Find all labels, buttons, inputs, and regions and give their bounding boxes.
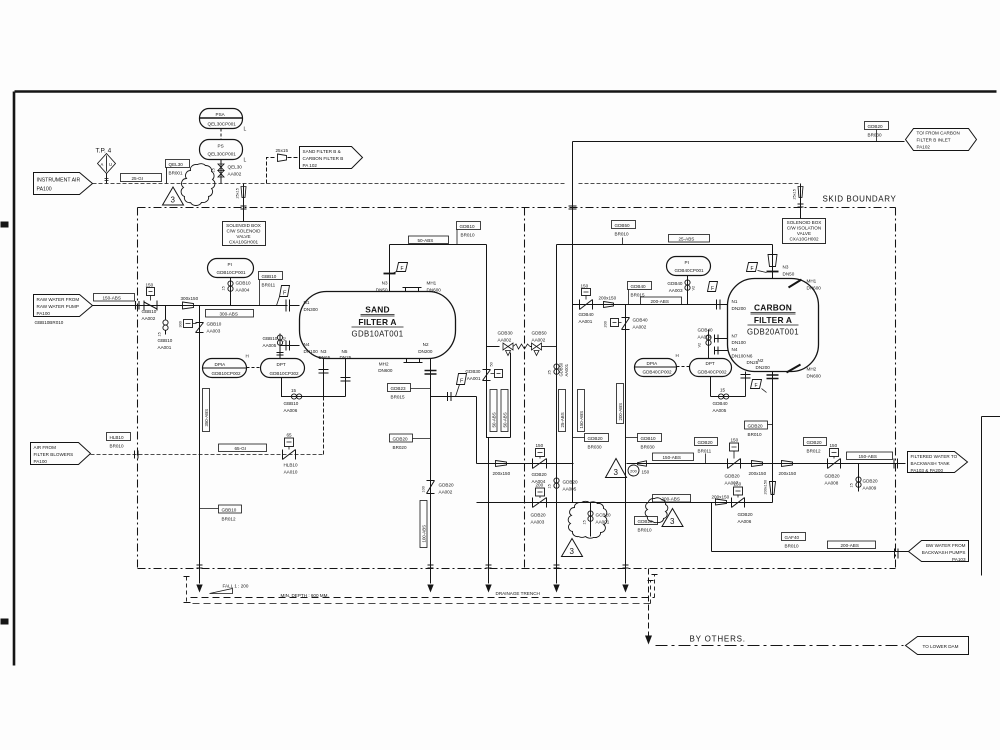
svg-text:200x150: 200x150 (712, 495, 730, 500)
manway MH2 DN600 (378, 359, 422, 374)
svg-text:GDB40: GDB40 (631, 284, 647, 289)
svg-text:PI: PI (685, 260, 689, 265)
revision triangle 3 (163, 187, 184, 205)
labels 50-ABS vertical pair (490, 390, 508, 432)
svg-text:BR012: BR012 (222, 517, 236, 522)
svg-text:H: H (246, 354, 249, 359)
svg-text:N3: N3 (783, 265, 789, 270)
svg-text:N3: N3 (382, 281, 388, 286)
valve GDB20 AA005 (548, 478, 579, 492)
svg-text:DN50: DN50 (783, 272, 795, 277)
svg-text:V2: V2 (283, 337, 287, 342)
instrument DPIA GDB10CP002 (203, 354, 249, 378)
svg-text:GBB10BR010: GBB10BR010 (35, 320, 64, 325)
svg-text:GBB10: GBB10 (263, 336, 278, 341)
backwash header 200-ABS (477, 502, 773, 504)
svg-text:N2: N2 (758, 358, 764, 363)
svg-text:GDB40: GDB40 (713, 401, 729, 406)
svg-text:200x150: 200x150 (749, 471, 767, 476)
svg-text:GDB40: GDB40 (667, 281, 683, 286)
svg-text:DN200: DN200 (756, 365, 771, 370)
instrument air dashed header (93, 183, 800, 185)
svg-text:GDB10: GDB10 (236, 281, 252, 286)
joint ticks at skid crossing (569, 206, 577, 209)
wire GDB30 drain riser (488, 438, 490, 569)
svg-text:GDB10CP302: GDB10CP302 (270, 371, 300, 376)
svg-text:15: 15 (222, 286, 226, 290)
svg-text:AA003: AA003 (531, 520, 545, 525)
svg-text:DN25: DN25 (340, 355, 352, 360)
svg-text:QEL30: QEL30 (169, 162, 184, 167)
svg-text:BACKWASH TANK: BACKWASH TANK (911, 461, 951, 466)
svg-text:GDB40CP002: GDB40CP002 (698, 370, 728, 375)
svg-text:GDB40CP002: GDB40CP002 (643, 370, 673, 375)
svg-text:AA010: AA010 (284, 470, 298, 475)
svg-text:GDB20: GDB20 (393, 437, 409, 442)
svg-text:GDB20: GDB20 (588, 436, 604, 441)
svg-text:SOLENOID BOX: SOLENOID BOX (226, 223, 261, 228)
label 25-GI (121, 174, 162, 182)
svg-text:RAW WATER FROM: RAW WATER FROM (37, 297, 80, 302)
label GDB50 BR010 (612, 221, 636, 245)
svg-text:GDB30: GDB30 (465, 369, 481, 374)
svg-text:GDB20: GDB20 (698, 440, 714, 445)
svg-text:U: U (109, 162, 112, 167)
svg-text:DN50: DN50 (376, 288, 388, 293)
wire N2 cross header (431, 396, 477, 398)
svg-text:GBB10: GBB10 (284, 401, 299, 406)
right border partial rect (982, 417, 1000, 576)
svg-text:DN100: DN100 (304, 349, 319, 354)
svg-text:AA009: AA009 (863, 486, 877, 491)
svg-text:150: 150 (734, 482, 742, 487)
valve GDB20 AA009 drain (850, 464, 879, 492)
svg-text:N6: N6 (747, 354, 753, 359)
label 100-ABS vertical (420, 501, 427, 548)
svg-text:GDB40: GDB40 (579, 312, 595, 317)
svg-text:FILTER A: FILTER A (358, 317, 396, 327)
wire air scour dashed (91, 454, 325, 456)
svg-text:GDB20: GDB20 (638, 519, 654, 524)
svg-text:GDB20: GDB20 (748, 424, 764, 429)
svg-text:25-GI: 25-GI (132, 176, 144, 181)
svg-text:AA002: AA002 (142, 316, 156, 321)
F flag raw line (277, 286, 290, 306)
svg-text:GDB20: GDB20 (439, 483, 455, 488)
svg-text:150: 150 (146, 283, 154, 288)
svg-text:AA003: AA003 (669, 288, 683, 293)
nozzle N7 DN100 / N4 DN100 + valve GDB40 AA004 (698, 328, 747, 359)
svg-text:150: 150 (830, 443, 838, 448)
svg-text:AA005: AA005 (563, 487, 577, 492)
svg-text:DPIA: DPIA (647, 361, 659, 366)
svg-text:AA002: AA002 (439, 490, 453, 495)
wire DPIA-DPT dashed carbon (677, 366, 690, 368)
svg-text:BR011: BR011 (262, 283, 276, 288)
valve GDB20 AA004 w/ actuator (532, 443, 548, 484)
svg-text:PS: PS (218, 144, 224, 149)
svg-text:GBB10: GBB10 (158, 338, 173, 343)
svg-text:PA100: PA100 (37, 187, 52, 193)
svg-text:AIR FROM: AIR FROM (34, 445, 57, 450)
label GBB10 BR011 (259, 272, 283, 306)
F flag carbon N2 (751, 380, 767, 393)
svg-text:15: 15 (850, 483, 854, 487)
svg-text:GDB20: GDB20 (825, 474, 841, 479)
svg-text:GDB50: GDB50 (615, 223, 631, 228)
reducer 200x150 pair (749, 461, 797, 477)
svg-text:300-ABS: 300-ABS (220, 312, 238, 317)
BY OTHERS dashed route (645, 569, 904, 646)
manway MH1 DN600 (403, 281, 442, 293)
svg-text:GDB10AT001: GDB10AT001 (352, 330, 404, 339)
svg-text:AA002: AA002 (228, 172, 242, 177)
flag AIR FROM FILTER BLOWERS PA100 (31, 443, 91, 465)
svg-text:3: 3 (171, 196, 176, 205)
svg-text:N7: N7 (732, 334, 738, 339)
svg-text:150: 150 (642, 470, 650, 475)
flag TO LOWER DAM (906, 637, 969, 655)
svg-text:L: L (244, 127, 247, 133)
svg-text:200x150: 200x150 (764, 480, 768, 495)
svg-text:BW WATER FROM: BW WATER FROM (926, 543, 966, 548)
spec break circle 200x150 (628, 461, 650, 476)
svg-text:GDB20: GDB20 (563, 480, 579, 485)
vessel CARBON FILTER A GDB20AT001 (728, 279, 819, 372)
label 200-ABS vertical (617, 384, 624, 424)
svg-text:VALVE: VALVE (797, 231, 811, 236)
valve GDB40 AA001 (579, 284, 595, 325)
reducer 25x15 drop to solenoid box 1 (236, 184, 247, 222)
revision triangle 3 bottom (562, 539, 583, 557)
svg-text:200x150: 200x150 (599, 296, 617, 301)
svg-text:3: 3 (570, 547, 575, 556)
svg-text:GDB20: GDB20 (725, 474, 741, 479)
svg-text:DN600: DN600 (427, 288, 442, 293)
node N1 flange ticks (286, 300, 290, 312)
svg-text:BR010: BR010 (748, 432, 762, 437)
svg-text:GDB20: GDB20 (807, 440, 823, 445)
svg-text:SAND FILTER B &: SAND FILTER B & (303, 149, 341, 154)
svg-text:15: 15 (583, 520, 587, 524)
svg-text:3: 3 (614, 468, 619, 477)
svg-text:BR010: BR010 (785, 544, 799, 549)
svg-text:200x150: 200x150 (779, 471, 797, 476)
svg-text:C/W SOLENOID: C/W SOLENOID (227, 229, 262, 234)
svg-text:N4: N4 (304, 342, 310, 347)
wire DPIA-DPT dashed (247, 367, 261, 369)
svg-text:200-ABS: 200-ABS (841, 543, 859, 548)
label 65-GI (219, 444, 267, 452)
svg-text:MH2: MH2 (379, 362, 389, 367)
flag SAND FILTER B & CARBON FILTER B PA 102 (300, 147, 363, 169)
label QEL30 BR001 (166, 160, 190, 184)
svg-text:GBB10: GBB10 (222, 508, 237, 513)
instrument DPT GDB10CP302 (261, 359, 305, 378)
wire carbon backwash riser (572, 305, 574, 503)
svg-text:N4: N4 (732, 347, 738, 352)
label GDB20 BR030 top (865, 122, 889, 142)
svg-text:CARBON FILTER B: CARBON FILTER B (303, 156, 344, 161)
F flag carbon N3 (747, 263, 767, 273)
svg-text:DRAINAGE TRENCH: DRAINAGE TRENCH (496, 591, 540, 596)
registration tick left edge lower (1, 619, 9, 625)
reducer 200x150 vertical on N2 riser (764, 480, 776, 495)
wire PSA-PS dashed (220, 129, 222, 140)
svg-text:DN100: DN100 (732, 354, 747, 359)
svg-text:FILTER A: FILTER A (754, 315, 792, 325)
reducer 200x150 backwash (712, 495, 730, 506)
F flag header (456, 374, 467, 397)
svg-text:200: 200 (604, 321, 608, 327)
svg-text:GBB10: GBB10 (142, 309, 157, 314)
svg-text:15: 15 (720, 388, 726, 393)
svg-text:MH1: MH1 (427, 281, 437, 286)
svg-text:25x15: 25x15 (793, 189, 797, 199)
flag INSTRUMENT AIR PA100 (34, 173, 93, 195)
svg-text:CARBON: CARBON (754, 303, 792, 313)
pipe 50-ABS to manifold (390, 245, 487, 345)
svg-text:3: 3 (670, 517, 675, 526)
manway MH2 DN600 carbon (787, 365, 822, 379)
svg-text:MH1: MH1 (807, 279, 817, 284)
label GBB10 BR012 (200, 505, 242, 522)
svg-text:C/W ISOLATION: C/W ISOLATION (787, 226, 821, 231)
wire DPT drain + valve GBB10 AA006 (282, 378, 346, 414)
valve GCB20 AA001 in cloud (583, 503, 612, 537)
valve GDB40 AA003 (667, 276, 695, 305)
valve GDB10 AA004 (222, 278, 252, 306)
svg-text:50-ABS: 50-ABS (491, 412, 496, 427)
label 150-ABS (94, 294, 135, 302)
solenoid box C/W solenoid valve CXA10GH001 (223, 222, 266, 246)
nozzle N2 DN200 carbon (756, 358, 779, 503)
svg-text:F: F (751, 266, 754, 272)
svg-text:MIN. DEPTH : 600 MM.: MIN. DEPTH : 600 MM. (281, 593, 329, 598)
svg-text:TO LOWER DAM: TO LOWER DAM (923, 644, 959, 649)
svg-text:QEL30CP001: QEL30CP001 (208, 122, 237, 127)
svg-text:AA003: AA003 (207, 329, 221, 334)
svg-text:GDB23: GDB23 (391, 386, 407, 391)
label 150-ABS vertical (578, 390, 585, 432)
valve QEL30 AA002 (212, 160, 243, 184)
svg-text:AA004: AA004 (236, 288, 250, 293)
nozzle N4 DN100 + valve GBB10 AA005 (263, 334, 319, 359)
revision cloud small (645, 498, 668, 523)
svg-text:DN600: DN600 (807, 286, 822, 291)
svg-text:150: 150 (581, 284, 589, 289)
flag RAW WATER FROM RAW WATER PUMP PA100 (34, 295, 93, 326)
svg-text:AA002: AA002 (532, 338, 546, 343)
svg-text:AA002: AA002 (498, 338, 512, 343)
svg-text:DN300: DN300 (304, 307, 319, 312)
label GAF40 BR010 (782, 533, 806, 549)
svg-text:100-ABS: 100-ABS (421, 525, 426, 543)
joint ticks raw line at skid (136, 301, 140, 310)
svg-text:GDB10CP001: GDB10CP001 (217, 270, 247, 275)
svg-text:PSA: PSA (216, 112, 226, 117)
svg-text:150: 150 (536, 443, 544, 448)
svg-text:GDB30: GDB30 (498, 331, 514, 336)
label 350-ABS vertical (203, 389, 210, 432)
svg-text:AA002: AA002 (633, 325, 647, 330)
svg-text:150-ABS: 150-ABS (579, 411, 584, 429)
instrument PI GDB10CP001 (208, 259, 254, 278)
svg-text:BR030: BR030 (641, 445, 655, 450)
label 50-ABS (409, 236, 449, 244)
reducer 300x150 (181, 296, 199, 309)
svg-text:25-ABS: 25-ABS (679, 237, 695, 242)
valve GDB20 AA006 w/ actuator on backwash header (732, 482, 754, 525)
instrument DPT GDB40CP002 (690, 359, 732, 377)
svg-text:AA004: AA004 (698, 335, 712, 340)
svg-text:GDB20: GDB20 (531, 513, 547, 518)
svg-text:50-ABS: 50-ABS (418, 238, 434, 243)
wire top line to carbon filter B flag (573, 141, 905, 143)
carbon inlet line (573, 304, 728, 306)
svg-text:BR010: BR010 (461, 233, 475, 238)
svg-text:25-ABS: 25-ABS (560, 412, 565, 427)
svg-text:200-ABS: 200-ABS (618, 403, 623, 421)
svg-text:FILTER BLOWERS: FILTER BLOWERS (34, 452, 74, 457)
svg-text:GDB10: GDB10 (641, 436, 657, 441)
valve GBB10 AA003 w/ actuator on drain branch (179, 306, 222, 584)
svg-text:350-ABS: 350-ABS (204, 409, 209, 427)
svg-text:FILTER B INLET: FILTER B INLET (917, 138, 951, 143)
BW water riser (712, 503, 909, 552)
flag TO/FROM CARBON FILTER B INLET PA102 (906, 129, 977, 151)
svg-text:GDB20: GDB20 (532, 472, 548, 477)
svg-text:F: F (755, 383, 758, 389)
reducer 200x150 carbon inlet (599, 296, 617, 308)
svg-text:AA008: AA008 (825, 481, 839, 486)
svg-text:RAW WATER PUMP: RAW WATER PUMP (37, 304, 79, 309)
svg-text:PA102: PA102 (917, 145, 931, 150)
reducer 25x15 (276, 148, 289, 162)
border frame (14, 92, 997, 666)
svg-text:150-ABS: 150-ABS (859, 454, 877, 459)
nozzle N3 DN50 carbon top (767, 245, 795, 279)
FALL wedge (210, 584, 249, 594)
svg-text:TO/ FROM CARBON: TO/ FROM CARBON (917, 131, 960, 136)
valve GBB10 AA001 drain (158, 306, 173, 351)
svg-text:PI: PI (228, 262, 232, 267)
vessel SAND FILTER A GDB10AT001 (300, 292, 456, 359)
revision cloud top (181, 164, 215, 206)
svg-text:PA103 & PA200: PA103 & PA200 (911, 468, 944, 473)
label 200-ABS mid (653, 495, 691, 503)
label 200-ABS carbon inlet (641, 297, 682, 305)
svg-text:150-ABS: 150-ABS (103, 296, 121, 301)
svg-text:GDB20AT001: GDB20AT001 (747, 328, 799, 337)
svg-text:VALVE: VALVE (236, 234, 250, 239)
skid boundary dash-dot rectangle (138, 208, 896, 569)
svg-text:F: F (711, 286, 714, 292)
svg-text:N3: N3 (321, 349, 327, 354)
svg-text:GDB20: GDB20 (738, 512, 754, 517)
svg-text:DN600: DN600 (807, 374, 822, 379)
svg-text:PA103: PA103 (952, 557, 966, 562)
svg-text:GBB10: GBB10 (207, 322, 222, 327)
label GDB20 BR011 (695, 438, 718, 464)
svg-text:T.P. 4: T.P. 4 (96, 148, 112, 155)
flag BW WATER FROM BACKWASH PUMPS PA103 (909, 541, 969, 563)
svg-text:PA100: PA100 (37, 311, 51, 316)
svg-text:HLB10: HLB10 (110, 435, 124, 440)
svg-text:AA006: AA006 (284, 408, 298, 413)
manway MH1 DN600 carbon (789, 279, 822, 291)
svg-text:15: 15 (158, 332, 162, 336)
drain drops with arrows (196, 565, 628, 593)
svg-text:200x150: 200x150 (493, 471, 511, 476)
svg-text:CXA10GH001: CXA10GH001 (229, 240, 259, 245)
svg-text:200-ABS: 200-ABS (651, 299, 669, 304)
svg-text:AA001: AA001 (596, 520, 610, 525)
wire carbon drain riser (625, 305, 627, 569)
revision triangle 3 mid (606, 459, 627, 478)
label GDB20 BR030 (573, 434, 609, 450)
svg-text:V2: V2 (692, 286, 696, 291)
svg-text:GBB10: GBB10 (262, 274, 277, 279)
svg-text:GCB20: GCB20 (596, 513, 612, 518)
svg-text:BR010: BR010 (615, 232, 629, 237)
svg-text:QEL30CP001: QEL30CP001 (208, 152, 237, 157)
svg-text:DN200: DN200 (418, 349, 433, 354)
label 150-ABS right (847, 452, 893, 460)
svg-text:SKID BOUNDARY: SKID BOUNDARY (823, 195, 897, 204)
label 150-ABS mid (653, 453, 694, 461)
label HLB10 BR010 (107, 433, 131, 449)
valve GDB20 AA007 w/ actuator on filtered header (725, 438, 741, 486)
wire raw water main (93, 305, 288, 307)
svg-text:GDB40CP001: GDB40CP001 (675, 268, 705, 273)
svg-text:CXA10GH002: CXA10GH002 (789, 237, 819, 242)
wire air riser to N3 (323, 451, 325, 455)
svg-text:200: 200 (630, 469, 637, 474)
svg-text:65-GI: 65-GI (235, 446, 247, 451)
wire filtered header drop (476, 397, 478, 464)
svg-text:H: H (676, 353, 679, 358)
node T.P.4 diamond (96, 148, 116, 184)
flag FILTERED WATER TO BACKWASH TANK PA103 & PA200 (908, 452, 968, 474)
valve GDB20 AA008 w/ actuator (825, 443, 841, 486)
svg-text:SOLENOID BOX: SOLENOID BOX (787, 220, 822, 225)
svg-text:BY OTHERS.: BY OTHERS. (690, 635, 746, 644)
label GDB10 BR030 (626, 434, 662, 450)
wire filtered to flag (773, 463, 906, 465)
svg-text:15: 15 (291, 388, 297, 393)
wire carbon inlet drop (572, 142, 574, 305)
F flag carbon inlet (708, 282, 718, 293)
svg-text:AA005: AA005 (263, 343, 277, 348)
valve GBB10 AA002 w/ actuator (136, 283, 158, 322)
valve GDB40 AA002 w/ actuator (604, 318, 649, 330)
svg-text:PA100: PA100 (34, 459, 48, 464)
skid boundary middle divider (524, 208, 526, 569)
instrument PI GDB40CP001 (667, 257, 711, 276)
F flag N3 (393, 263, 408, 274)
instrument PS QEL30CP001 (200, 140, 247, 164)
svg-text:150-ABS: 150-ABS (663, 455, 681, 460)
svg-text:GDB40: GDB40 (633, 318, 649, 323)
svg-text:FALL 1 : 200: FALL 1 : 200 (223, 584, 249, 589)
svg-text:BR010: BR010 (110, 444, 124, 449)
svg-text:300x150: 300x150 (181, 296, 199, 301)
instrument DPIA GDB40CP002 (635, 353, 679, 377)
nozzle N3 DN65 bottom (319, 349, 331, 451)
svg-text:AA001: AA001 (564, 363, 569, 376)
svg-text:DN200: DN200 (732, 306, 747, 311)
